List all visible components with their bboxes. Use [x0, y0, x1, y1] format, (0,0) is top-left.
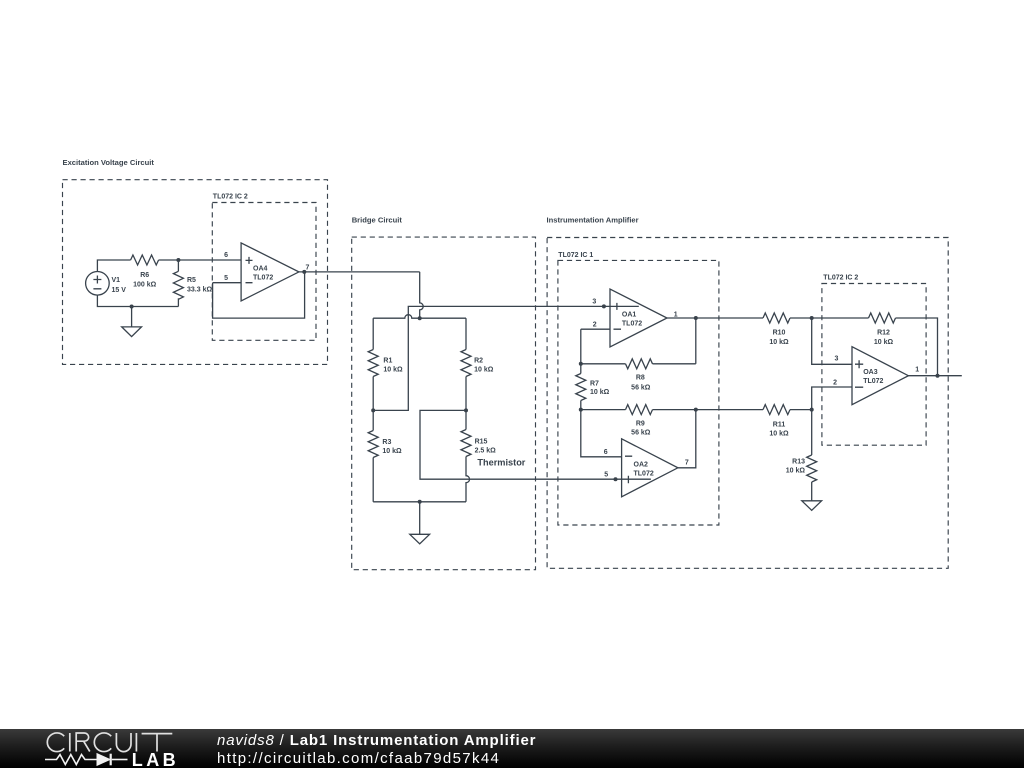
- svg-text:1: 1: [915, 367, 919, 374]
- svg-text:R3: R3: [382, 439, 391, 446]
- wire R13 top lead: [811, 410, 813, 455]
- svg-text:R9: R9: [636, 421, 645, 428]
- wire R15 top lead: [465, 410, 467, 429]
- wire to OA3 pin 3: [812, 318, 852, 364]
- wire R2 bottom lead: [465, 377, 467, 411]
- ground (bridge): [410, 502, 430, 544]
- op-amp OA1: [610, 289, 667, 347]
- node R9 right: [694, 408, 698, 412]
- ground (excitation): [122, 307, 142, 337]
- logo resistor-diode glyph: [45, 754, 128, 766]
- svg-text:Thermistor: Thermistor: [477, 458, 525, 468]
- resistor R11: [763, 405, 790, 415]
- dashed box: Instrumentation Amplifier: [547, 238, 948, 569]
- wire R10 to R12: [790, 317, 869, 319]
- svg-text:2.5 kΩ: 2.5 kΩ: [475, 447, 497, 454]
- svg-text:TL072 IC 1: TL072 IC 1: [558, 252, 593, 259]
- wire to OA1 pin 3 (up and over): [373, 306, 639, 410]
- svg-text:Bridge Circuit: Bridge Circuit: [352, 216, 403, 225]
- svg-text:OA1: OA1: [622, 312, 637, 319]
- resistor R7: [576, 374, 586, 401]
- svg-text:OA2: OA2: [634, 462, 649, 469]
- wire feedback drop to R8: [695, 318, 697, 364]
- resistor R1: [368, 350, 378, 377]
- svg-text:3: 3: [592, 299, 596, 306]
- svg-text:10 kΩ: 10 kΩ: [383, 367, 403, 374]
- resistor R12: [869, 313, 896, 323]
- node R11/R13 junction: [810, 408, 814, 412]
- dashed box: TL072 IC 2 (left): [212, 203, 316, 341]
- svg-text:R10: R10: [773, 329, 786, 336]
- resistor R13: [807, 455, 817, 482]
- svg-text:R6: R6: [140, 272, 149, 279]
- svg-text:Instrumentation Amplifier: Instrumentation Amplifier: [547, 215, 639, 224]
- svg-text:R8: R8: [636, 374, 645, 381]
- wire R11 right lead: [790, 409, 812, 411]
- node OA1 input wire joint: [602, 304, 606, 308]
- wire OA1 pin 2: [581, 328, 610, 330]
- wire R13 bottom lead: [811, 482, 813, 501]
- footer bar: [0, 729, 1024, 768]
- node OA1 output: [694, 316, 698, 320]
- footer title: [217, 732, 536, 749]
- node bridge top: [418, 316, 422, 320]
- svg-text:TL072: TL072: [634, 470, 654, 477]
- svg-text:56 kΩ: 56 kΩ: [631, 384, 651, 391]
- svg-text:1: 1: [674, 311, 678, 318]
- svg-text:R5: R5: [187, 277, 196, 284]
- dashed box: Bridge Circuit: [352, 237, 536, 570]
- wire R7 top lead: [580, 364, 582, 374]
- svg-text:2: 2: [833, 379, 837, 386]
- resistor R6: [131, 255, 159, 265]
- op-amp OA4: [241, 243, 299, 301]
- wire R9 right lead to R11: [653, 409, 764, 411]
- node OA2 input wire joint: [614, 477, 618, 481]
- resistor R8: [626, 359, 653, 369]
- wire R8 right lead: [653, 363, 696, 365]
- svg-text:TL072: TL072: [622, 320, 642, 327]
- svg-text:3: 3: [834, 356, 838, 363]
- wire V1 top lead: [97, 260, 130, 272]
- wire R1 bottom lead: [372, 377, 374, 411]
- resistor R3: [368, 431, 378, 458]
- wire R2 top lead: [465, 318, 467, 349]
- svg-text:LAB: LAB: [132, 750, 179, 768]
- wire OA2 pin 6 path: [581, 410, 622, 457]
- svg-text:7: 7: [685, 459, 689, 466]
- svg-text:6: 6: [604, 449, 608, 456]
- resistor R2: [461, 350, 471, 377]
- wire excitation drop into bridge (hop over OA1 wire): [420, 272, 424, 318]
- wire R9 left lead: [581, 409, 626, 411]
- node OA4 output: [302, 270, 306, 274]
- svg-text:R7: R7: [590, 381, 599, 388]
- dashed box: TL072 IC 1: [558, 260, 719, 525]
- node bridge bottom: [418, 500, 422, 504]
- svg-text:10 kΩ: 10 kΩ: [769, 431, 789, 438]
- svg-text:10 kΩ: 10 kΩ: [769, 339, 789, 346]
- svg-text:10 kΩ: 10 kΩ: [474, 367, 494, 374]
- svg-text:2: 2: [593, 321, 597, 328]
- svg-text:R1: R1: [383, 357, 392, 364]
- wire R5 top lead: [177, 260, 179, 271]
- svg-text:15 V: 15 V: [112, 287, 127, 294]
- node R6/R5 junction: [176, 258, 180, 262]
- node OA3 output: [936, 374, 940, 378]
- wire R5 bottom lead: [177, 298, 179, 306]
- svg-text:56 kΩ: 56 kΩ: [631, 429, 651, 436]
- wire OA2 output up to R9 node: [678, 410, 696, 468]
- svg-text:V1: V1: [112, 277, 121, 284]
- svg-text:R2: R2: [474, 357, 483, 364]
- svg-text:Excitation Voltage Circuit: Excitation Voltage Circuit: [63, 158, 155, 167]
- node OA2 inverting: [579, 408, 583, 412]
- node OA1 inverting: [579, 362, 583, 366]
- wire R3 top lead: [372, 410, 374, 430]
- svg-text:TL072 IC 2: TL072 IC 2: [823, 274, 858, 281]
- svg-text:7: 7: [306, 265, 310, 272]
- wire R7 bottom lead: [580, 401, 582, 410]
- wire to OA3 pin 2: [812, 387, 852, 410]
- resistor R5: [173, 271, 183, 299]
- op-amp OA3: [852, 347, 908, 405]
- svg-text:100 kΩ: 100 kΩ: [133, 281, 157, 288]
- svg-text:5: 5: [224, 275, 228, 282]
- wire bridge bottom rail: [373, 501, 466, 503]
- node bridge left mid: [371, 408, 375, 412]
- wire R1 top lead: [372, 318, 374, 349]
- dashed box: Excitation Voltage Circuit: [63, 180, 328, 365]
- wire OA4 feedback loop: [213, 272, 305, 318]
- resistor R15 thermistor: [461, 430, 471, 457]
- svg-text:R13: R13: [792, 459, 805, 466]
- wire R12 right lead down to output: [896, 318, 938, 376]
- wire R15 bottom lead (hop over OA2 wire): [466, 457, 470, 502]
- svg-text:6: 6: [224, 252, 228, 259]
- svg-text:R15: R15: [475, 439, 488, 446]
- wire OA4 output to bridge: [299, 271, 420, 273]
- dashed box: TL072 IC 2 (right): [822, 284, 926, 446]
- wire to OA2 pin 5 (down and right): [420, 410, 651, 479]
- svg-text:OA4: OA4: [253, 266, 268, 273]
- ground (R13): [802, 501, 822, 511]
- svg-text:10 kΩ: 10 kΩ: [382, 448, 402, 455]
- wire OA3 output: [908, 375, 961, 377]
- svg-text:10 kΩ: 10 kΩ: [874, 339, 894, 346]
- svg-text:5: 5: [604, 472, 608, 479]
- svg-text:R12: R12: [877, 329, 890, 336]
- node R10/R12 junction: [810, 316, 814, 320]
- svg-text:10 kΩ: 10 kΩ: [786, 468, 806, 475]
- resistor R9: [626, 405, 653, 415]
- svg-text:33.3 kΩ: 33.3 kΩ: [187, 287, 212, 294]
- wire bridge top rail (hop over riser): [373, 315, 466, 319]
- wire OA1 inverting riser: [580, 329, 582, 364]
- svg-text:TL072: TL072: [253, 274, 273, 281]
- svg-text:OA3: OA3: [863, 369, 878, 376]
- svg-text:10 kΩ: 10 kΩ: [590, 389, 610, 396]
- CircuitLab logo: [0, 729, 200, 768]
- wire bottom rail V1 to R5: [97, 295, 178, 306]
- wire R8 left lead: [581, 363, 626, 365]
- svg-text:TL072: TL072: [863, 378, 883, 385]
- wire R3 bottom lead: [372, 458, 374, 502]
- resistor R10: [763, 313, 790, 323]
- wire OA4 pin 5: [213, 282, 242, 284]
- op-amp OA2: [622, 439, 678, 497]
- voltage source V1: [86, 272, 110, 296]
- wire OA1 output run to R10: [667, 317, 763, 319]
- wire R6 to op-amp pin 6: [159, 259, 242, 261]
- svg-text:TL072 IC 2: TL072 IC 2: [213, 194, 248, 201]
- footer url: [217, 750, 500, 767]
- svg-text:R11: R11: [773, 421, 786, 428]
- node bridge right mid: [464, 408, 468, 412]
- node ground junction: [130, 305, 134, 309]
